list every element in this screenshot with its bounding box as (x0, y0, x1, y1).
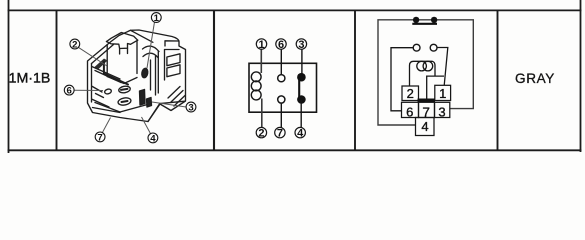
terminal slot lower (122, 101, 128, 102)
contact point 7 (278, 96, 285, 103)
terminal spade center (140, 90, 146, 106)
connector rib (black bar) (418, 99, 436, 103)
foot hatch (168, 87, 185, 107)
svg-text:1: 1 (258, 39, 264, 51)
callout 7 (iso) (95, 132, 105, 143)
callout 4 (295, 127, 305, 139)
terminal oval center upper (118, 85, 131, 93)
coil (pin layout) (410, 61, 436, 86)
svg-text:2: 2 (258, 128, 264, 140)
leader 7 (102, 118, 110, 133)
terminal spade 3 (147, 98, 152, 108)
pin cell 3 (435, 102, 450, 117)
terminal oval center lower (117, 97, 131, 106)
svg-text:3: 3 (188, 103, 193, 114)
callout 6 (276, 39, 286, 51)
tower platform front notched edge (107, 40, 138, 48)
callout 2 (256, 127, 266, 139)
relay box outline (249, 63, 317, 112)
front shroud wall top edge (92, 67, 121, 83)
contact dot 3 (297, 73, 306, 82)
terminal slot upper (121, 89, 128, 90)
wire outer loop pin4 to pin3 (378, 20, 473, 125)
fixed contact circle left (pin 6) (413, 44, 420, 51)
callout 6 (iso) (64, 85, 74, 96)
wire pin6 (layout) (391, 48, 413, 111)
contact dot left (413, 17, 419, 23)
wire coil junction to pin7 (427, 76, 444, 99)
callout 1 (256, 39, 266, 51)
fixed contact circle right (pin 1) (430, 44, 437, 51)
moat dark slot (95, 59, 108, 70)
right wall rounded humps (143, 46, 160, 57)
contact point 6 (278, 75, 285, 82)
callout 3 (iso) (186, 102, 196, 113)
cavity inner left wall (92, 64, 110, 108)
svg-text:4: 4 (421, 119, 428, 134)
pin cell 7 (419, 102, 435, 117)
leader 2 (78, 47, 107, 66)
pin cell 4 (416, 118, 435, 136)
callout 3 (296, 39, 306, 51)
right face tab lower (167, 65, 180, 77)
tower front face right edge (136, 41, 138, 74)
svg-text:3: 3 (438, 104, 445, 119)
svg-text:6: 6 (67, 86, 72, 97)
coil L1 (251, 72, 261, 100)
leader 3 (152, 102, 186, 107)
inner corner post (104, 62, 128, 85)
callout 2 (iso) (70, 39, 80, 50)
tower platform back edges (107, 33, 138, 42)
svg-text:6: 6 (406, 104, 413, 119)
cavity right wall (151, 52, 159, 96)
leader 6 (74, 89, 103, 91)
top tab block (165, 41, 180, 80)
wire coil to pin2 (261, 99, 263, 128)
callout 1 (iso) (151, 13, 161, 24)
svg-text:3: 3 (298, 39, 304, 51)
collar back-right edge (131, 30, 153, 42)
contact dot right (431, 17, 437, 23)
wire pin4 (300, 100, 302, 128)
callout 7 (275, 127, 285, 139)
svg-text:GRAY: GRAY (515, 71, 555, 86)
terminal oval 6 (104, 88, 112, 94)
wire pin3 (301, 49, 303, 74)
wire pin7 (280, 103, 282, 127)
svg-text:2: 2 (407, 86, 414, 101)
wire contact to pin1 cell (437, 48, 448, 86)
svg-text:1: 1 (154, 13, 160, 24)
right face tab upper (167, 54, 180, 66)
svg-text:1M·1B: 1M·1B (9, 71, 51, 87)
svg-text:2: 2 (72, 40, 77, 51)
svg-text:7: 7 (97, 132, 102, 143)
tower front face bottom edge (107, 77, 137, 84)
pin cell 2 (402, 86, 419, 101)
leader 4 (142, 117, 151, 134)
svg-text:4: 4 (150, 133, 156, 144)
tower notch inner verticals (120, 48, 128, 54)
contact bridge bar (412, 23, 437, 25)
svg-text:7: 7 (277, 128, 283, 140)
cavity floor front edge (95, 103, 148, 113)
svg-text:6: 6 (278, 39, 284, 51)
leader 1 (147, 22, 155, 68)
pin cell 1 (435, 85, 451, 100)
contact dot 4 (297, 95, 306, 104)
svg-text:4: 4 (297, 128, 304, 140)
tower front face left edge (106, 45, 108, 77)
wire pin6 (280, 49, 282, 74)
pin cell 6 (402, 102, 419, 117)
shroud wall top band (92, 45, 114, 64)
callout 4 (iso) (148, 133, 158, 144)
wire pin1 to coil (260, 49, 262, 73)
bottom skirt edge (93, 101, 185, 121)
table frame (8, 0, 582, 153)
relay body silhouette (88, 30, 186, 122)
contact bridge 3-4 (298, 77, 300, 99)
svg-text:1: 1 (439, 86, 446, 101)
terminal pin1 (141, 68, 148, 78)
